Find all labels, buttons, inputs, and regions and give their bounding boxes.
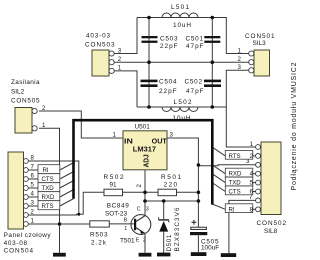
wire R502 left leg [28, 192, 104, 215]
wire CON504 pin7 stub [28, 169, 38, 171]
svg-text:2: 2 [143, 238, 146, 244]
net label CTS right [225, 186, 253, 196]
wire bus entry RTS right [213, 148, 225, 156]
svg-text:C502: C502 [185, 79, 203, 86]
svg-text:R503: R503 [90, 231, 108, 238]
wire bus entry RTS left [60, 198, 75, 206]
inductor L501 [162, 4, 198, 29]
svg-text:100uF: 100uF [201, 245, 219, 252]
transistor Q T501 BC849 [105, 203, 151, 245]
svg-text:RXD: RXD [42, 194, 55, 201]
ground at T501 emitter [139, 253, 152, 257]
wire D501 anode [163, 232, 165, 253]
ground at CON502 pin8 [221, 253, 236, 257]
svg-text:RI: RI [229, 206, 235, 213]
svg-text:1: 1 [250, 141, 254, 148]
svg-text:U501: U501 [135, 123, 151, 130]
wire middle rail [114, 61, 249, 63]
wire C504 branch [148, 62, 150, 107]
node out R501 tee [197, 191, 201, 195]
svg-text:CON502: CON502 [257, 220, 287, 227]
resistor R503 [90, 221, 110, 247]
svg-text:3: 3 [146, 207, 149, 213]
svg-text:SIL2: SIL2 [11, 89, 25, 96]
wire bus entry RI right [212, 204, 225, 209]
wire CON503 pin3 to top rail [114, 18, 137, 54]
svg-text:C503: C503 [160, 36, 178, 43]
svg-text:BC849: BC849 [107, 203, 129, 210]
svg-text:RTS: RTS [229, 153, 241, 160]
node mid rail left cap [147, 60, 151, 64]
svg-text:2.2k: 2.2k [91, 239, 107, 246]
resistor R502 [104, 174, 124, 196]
wire collector rail [145, 200, 198, 202]
svg-text:3: 3 [118, 47, 122, 54]
svg-text:ADJ: ADJ [141, 154, 150, 167]
svg-text:22pF: 22pF [159, 88, 177, 95]
wire ADJ to collector [144, 170, 146, 216]
wire R501 right [177, 191, 199, 193]
svg-text:Podłączenie do modułu VMUSIC2: Podłączenie do modułu VMUSIC2 [291, 62, 298, 190]
wire CON502 pin4 stub [247, 173, 256, 175]
connector CON501 [238, 33, 275, 76]
connector CON504 [4, 152, 52, 254]
svg-text:403-03: 403-03 [86, 33, 110, 40]
svg-text:CON503: CON503 [85, 42, 115, 49]
svg-text:Panel czołowy: Panel czołowy [4, 232, 52, 239]
svg-text:C504: C504 [159, 79, 177, 86]
diode D501 zener [159, 207, 182, 251]
node ground tee [58, 222, 62, 226]
node out pin3 tee [197, 163, 201, 167]
wire CON504 pin5 stub [28, 187, 38, 189]
svg-text:L501: L501 [171, 4, 189, 11]
svg-text:IN: IN [124, 136, 133, 145]
wire top rail [137, 18, 249, 54]
svg-text:10uH: 10uH [173, 115, 191, 122]
regulator U501 LM317 [113, 123, 174, 187]
wire CON505 pin1 ground drop [39, 128, 60, 253]
svg-text:TXD: TXD [229, 180, 242, 187]
svg-text:D501: D501 [166, 234, 173, 251]
wire CON502 pin7 to ground [229, 200, 256, 253]
wire U501 OUT rail [167, 138, 198, 228]
net label RI right [225, 204, 253, 214]
inductor L502 [162, 99, 198, 122]
wire C505 bottom [197, 235, 199, 252]
svg-text:B: B [124, 217, 128, 223]
svg-text:TXD: TXD [42, 185, 55, 192]
wire ADJ row [123, 191, 159, 193]
capacitor C505 [190, 220, 219, 252]
svg-text:E: E [136, 238, 140, 244]
wire CON502 pin2 stub [247, 155, 256, 157]
svg-text:CTS: CTS [42, 176, 54, 183]
wire CON505 pin2 to U501 IN [39, 111, 123, 138]
bus [74, 120, 213, 204]
wire C503 branch [148, 18, 150, 63]
capacitor C504 [141, 79, 177, 96]
wire D501 top [163, 201, 165, 219]
svg-text:SIL3: SIL3 [253, 40, 267, 47]
svg-text:22pF: 22pF [160, 43, 178, 50]
svg-text:SOT-23: SOT-23 [105, 210, 127, 217]
wire CON502 pin8 stub [247, 208, 256, 210]
wire CON504 pin6 stub [28, 178, 38, 180]
wire bottom rail [137, 106, 226, 108]
svg-text:SIL8: SIL8 [264, 228, 278, 235]
connector CON502 [246, 141, 286, 235]
wire bus entry TXD left [60, 180, 75, 188]
svg-text:220: 220 [164, 182, 178, 189]
svg-text:LM317: LM317 [133, 144, 156, 153]
node ADJ row [143, 191, 147, 195]
capacitor C502 [185, 79, 222, 96]
net label RXD left [38, 192, 60, 201]
svg-text:91: 91 [110, 182, 118, 189]
connector CON503 [85, 33, 122, 77]
capacitor C503 [142, 36, 178, 51]
svg-text:Zasilania: Zasilania [11, 79, 40, 86]
svg-text:CON504: CON504 [4, 247, 34, 254]
svg-text:2: 2 [118, 56, 122, 63]
svg-text:CTS: CTS [229, 189, 241, 196]
wire C501 branch [211, 18, 213, 63]
wire CON504 pin8 pin2 net [28, 161, 79, 214]
svg-text:C501: C501 [186, 36, 204, 43]
net label RI left [38, 165, 60, 174]
svg-text:47pF: 47pF [186, 43, 204, 50]
wire emitter [144, 234, 146, 253]
wire CON502 pin6 stub [247, 191, 256, 193]
net label CTS left [38, 174, 60, 183]
wire OUT to CON502 pin3 jog [198, 165, 255, 166]
node collector tee [143, 199, 147, 203]
wire CON504 pin4 stub [28, 196, 38, 198]
svg-text:RTS: RTS [42, 203, 54, 210]
net label TXD right [225, 177, 253, 187]
resistor R501 [158, 174, 181, 196]
node out collector tee [197, 199, 201, 203]
wire bus entry RXD right [213, 166, 225, 174]
wire R503 to base [109, 223, 134, 225]
svg-text:RXD: RXD [229, 171, 242, 178]
svg-text:47pF: 47pF [186, 88, 204, 95]
wire bus entry CTS right [213, 184, 225, 192]
connector CON505 [11, 79, 46, 133]
net label RTS right [225, 150, 253, 160]
wire bus entry RXD left [60, 189, 75, 197]
ground at D501 [157, 253, 170, 257]
svg-text:10uH: 10uH [173, 22, 191, 29]
wire bus entry TXD right [213, 175, 225, 183]
node top rail left cap [147, 16, 151, 20]
wire CON501 pin3 and CON502 pin1 vertical [226, 70, 255, 147]
svg-text:RI: RI [43, 167, 49, 174]
ground at C505 [191, 252, 207, 256]
svg-text:1: 1 [124, 226, 127, 232]
ground at CON505 pin1 [53, 253, 66, 257]
svg-text:BZX83C3V6: BZX83C3V6 [174, 207, 181, 251]
capacitor C501 [186, 36, 221, 51]
node mid rail right cap [211, 60, 215, 64]
svg-text:T501: T501 [120, 237, 135, 244]
node top rail right cap [211, 16, 215, 20]
svg-text:1: 1 [118, 65, 122, 72]
node bottom rail right cap [211, 105, 215, 109]
svg-text:CON501: CON501 [245, 33, 275, 40]
svg-text:403-08: 403-08 [4, 240, 28, 247]
node D501 tee [162, 199, 166, 203]
wire C502 branch [211, 62, 213, 107]
net label RXD right [225, 168, 253, 178]
wire bus entry CTS left [60, 171, 75, 179]
wire CON504 pin3 stub [28, 205, 38, 207]
net label TXD left [38, 183, 60, 192]
node jog tee [77, 213, 80, 216]
net label RTS left [38, 201, 60, 210]
svg-text:C: C [137, 207, 141, 213]
wire ground run CON504 pin1 to R503 [28, 223, 90, 225]
node bottom rail left cap [147, 105, 151, 109]
svg-text:L502: L502 [174, 99, 192, 106]
wire CON502 pin5 stub [247, 182, 256, 184]
wire bus entry RI left [60, 162, 75, 170]
wire CON503 pin1 to bottom rail [114, 71, 137, 107]
svg-text:CON505: CON505 [11, 98, 40, 105]
